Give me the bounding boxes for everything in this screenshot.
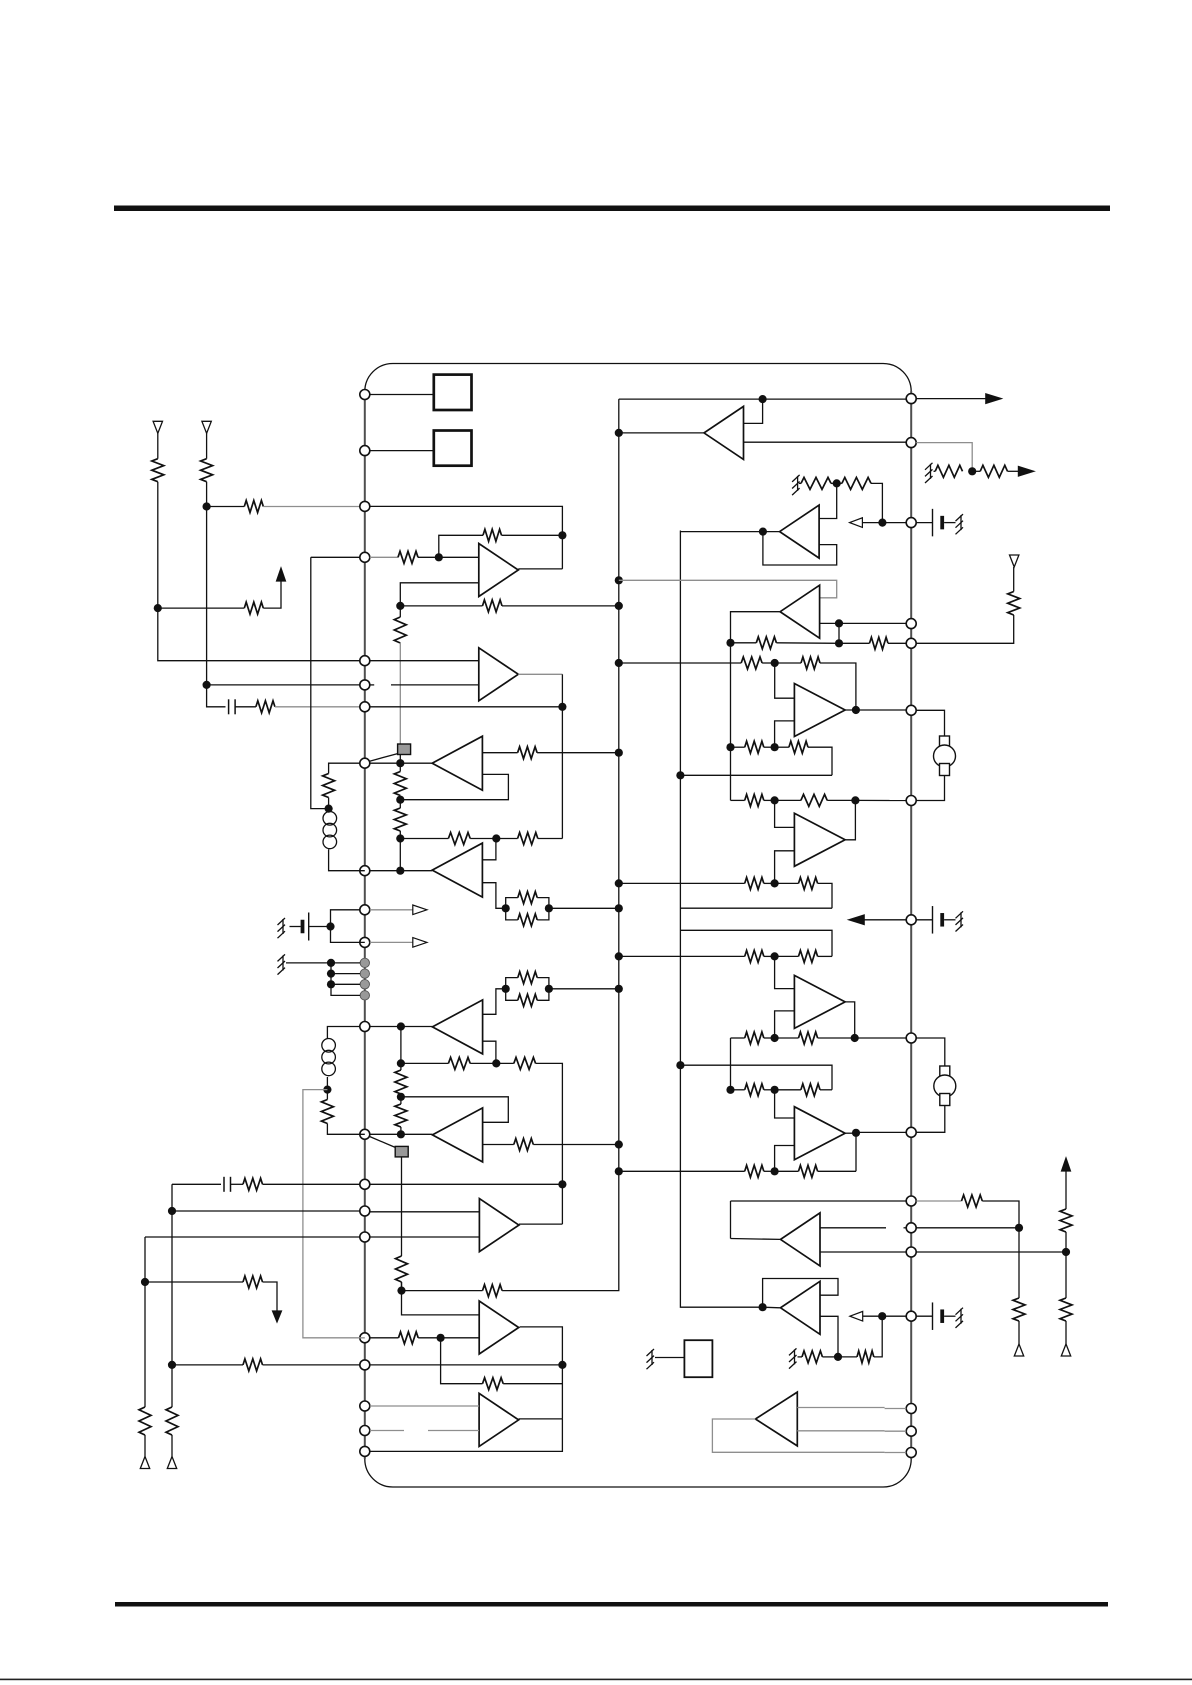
wire pin4 to R7 [370, 556, 398, 558]
resistor R34 [483, 1378, 504, 1390]
wire pin18 row inside [370, 1364, 563, 1366]
resistor R40 [870, 637, 889, 649]
wire node AE lead [775, 882, 799, 884]
wire rail 1065 [680, 1065, 832, 1090]
resistor R54 [801, 1084, 820, 1096]
wire A1 fb res lead [502, 534, 563, 536]
wire node J down [400, 1027, 402, 1064]
wire GND4 lead [799, 482, 801, 484]
capacitor C4 [940, 516, 944, 530]
wire R42 corner [820, 663, 856, 710]
junction bus N1 row606 [615, 602, 623, 610]
resistor R32 [139, 1407, 151, 1435]
wire pin20 dash1 [370, 1430, 404, 1432]
wire U10 +in gray [797, 1407, 884, 1409]
wire C2 gnd lead [290, 926, 301, 928]
wire ext row 557 [311, 556, 365, 558]
wire row 1211 [172, 1210, 360, 1212]
wire R53 to node AH [764, 1089, 775, 1091]
wire A1 -in [400, 583, 479, 606]
pin 36 [906, 796, 916, 806]
wire node Q down to A8 out [561, 1184, 563, 1224]
wire R43 to node AC [764, 746, 775, 748]
wire node AH lead [775, 1089, 801, 1091]
wire node AM up [1065, 1232, 1067, 1252]
wire T2 lead [206, 433, 208, 458]
resonator Y1 [934, 736, 956, 776]
wire R34 to x562 [503, 1383, 562, 1385]
wire A9 out [520, 1327, 563, 1419]
wire pad stub2 [331, 973, 360, 975]
junction node B [203, 502, 211, 510]
resistor R49 [745, 950, 764, 962]
resistor R6 [483, 529, 502, 541]
pin 12 [360, 1022, 370, 1032]
wire A8 out [519, 1223, 563, 1225]
junction node F [396, 834, 404, 842]
junction node P [397, 1287, 405, 1295]
pin 39 [906, 619, 916, 629]
junction bus N1 row1171 [615, 1167, 623, 1175]
wire row839 lead1 [400, 838, 448, 840]
resistor R30 [243, 1359, 263, 1371]
wire node AG lead [775, 1037, 799, 1039]
junction node AD [771, 796, 779, 804]
resistor R44 [789, 741, 808, 753]
wire rail 1201 [731, 1200, 907, 1202]
wire R7 to A1 +in [418, 556, 479, 558]
wire row1063 lead1 [401, 1062, 449, 1064]
junction node AE [771, 879, 779, 887]
wire pin30 ext [916, 1251, 1066, 1253]
IC U100 outline [365, 364, 911, 1488]
wire pin1 to block X1 [370, 394, 434, 396]
wire U3 out [680, 531, 779, 533]
wire row643 lead1 [731, 642, 757, 644]
pin 38 [906, 638, 916, 648]
resistor R47 [745, 877, 764, 889]
junction bus N1 row580 [615, 576, 623, 584]
wire pin42 ext [916, 398, 986, 400]
resistor R60 [1013, 1298, 1025, 1321]
pin 42 [906, 394, 916, 404]
terminal T2 triangle [202, 421, 211, 433]
resistor R9 [394, 617, 406, 643]
wire rail 908 [680, 907, 832, 909]
wire node M to R23 [400, 1097, 402, 1104]
wire arrow IN2 to pin35 [863, 919, 907, 921]
wire U8 out [731, 1238, 780, 1241]
wire R55 to node AI [764, 1170, 775, 1172]
ground GND5 [956, 514, 964, 534]
page bottom hairline [0, 1679, 1192, 1681]
wire R32 to T4 [144, 1435, 146, 1457]
wire node A to R5 [158, 607, 245, 609]
wire pin3 row to corner [370, 506, 563, 569]
junction A1 +in [435, 553, 443, 561]
junction bus N1 row663 [615, 659, 623, 667]
resistor R56 [799, 1165, 818, 1177]
wire R59 corner down [982, 1201, 1019, 1228]
wire pin7 row [370, 706, 563, 708]
wire arrow IN3 lead [863, 1315, 883, 1317]
wire A1 out [518, 568, 562, 570]
block X3 [684, 1340, 712, 1377]
resistor R22 [395, 1070, 407, 1094]
wire pin8 to A3 out [370, 762, 432, 764]
wire GND9 to box [655, 1357, 684, 1359]
wire RT1 to bus N1 [549, 907, 619, 909]
pin 35 [906, 915, 916, 925]
wire GND7 lead [798, 1356, 803, 1358]
resistor R7 [398, 551, 418, 563]
wire pin14 ext [172, 1183, 221, 1185]
resistor R19 [518, 994, 537, 1006]
IC left pin bus [364, 391, 366, 1459]
block X1 (filter) [434, 375, 472, 410]
capacitor C6 [940, 1309, 944, 1323]
wire bus row957 right [619, 955, 745, 957]
resistor R57 [802, 1351, 822, 1363]
wire node AA lead [839, 642, 870, 644]
wire A4 out row [400, 870, 432, 872]
resistor R59 [962, 1195, 983, 1207]
terminal T5 [1014, 1344, 1023, 1356]
wire S1 to pin8 row [399, 755, 401, 764]
resistor R8 [483, 600, 503, 612]
junction node X [833, 479, 841, 487]
resistor R58 [857, 1351, 874, 1363]
junction node K [397, 1059, 405, 1067]
junction pin8 node [396, 759, 404, 767]
op-amp U3 [780, 505, 820, 558]
pin 10 [360, 905, 370, 915]
wire pin40 cap lead [916, 522, 932, 524]
wire pin12 ext corner [327, 1027, 360, 1039]
pin 4 [360, 552, 370, 562]
switch S1 contact (gray square) [398, 744, 411, 755]
junction node A [154, 604, 162, 612]
wire pin10 ext [331, 910, 361, 927]
resistor R16 [518, 892, 537, 904]
wire row883 res lead [744, 882, 746, 884]
wire T1 lead [157, 433, 159, 458]
wire row 606 left lead [400, 605, 482, 607]
wire A4 +in hook [482, 839, 496, 860]
wire node U down [441, 1338, 483, 1384]
resistor R33 [399, 1332, 419, 1344]
wire A5 out row [401, 1026, 433, 1028]
ground GND2 [278, 954, 286, 974]
terminal T1 triangle [153, 421, 162, 433]
wire row 1237 [145, 1236, 360, 1238]
pad P2 (gray) [360, 969, 369, 978]
wire row 1282 lead [145, 1281, 243, 1283]
junction RT1 left [502, 904, 510, 912]
junction bus N1 row908 [615, 904, 623, 912]
op-amp U9 [781, 1281, 821, 1334]
junction U6 out node [851, 1034, 859, 1042]
junction RT2 left [502, 985, 510, 993]
terminal T6 [1061, 1344, 1070, 1356]
wire node X lead [831, 482, 842, 484]
junction node D [396, 602, 404, 610]
pin 28 [906, 1404, 916, 1414]
junction node Z [835, 619, 843, 627]
arrow OUT4 [1018, 467, 1034, 477]
pin 29 [906, 1311, 916, 1321]
resistor R2 [201, 459, 213, 482]
wire R15 corner up [538, 838, 563, 840]
junction node AG [771, 1034, 779, 1042]
wire node D to R9 [399, 606, 401, 617]
wire node AK to pin29 [882, 1315, 906, 1317]
resistor R1 [152, 459, 164, 482]
junction node W [968, 467, 976, 475]
wire A5 +in hook [483, 989, 506, 1015]
wire R61 up [1065, 1171, 1067, 1209]
junction node U [437, 1334, 445, 1342]
wire node Z to pin39 [839, 622, 906, 624]
junction node R [168, 1207, 176, 1215]
wire x856 down [855, 1133, 857, 1172]
resistor R48 [799, 877, 818, 889]
wire node B down [206, 507, 208, 685]
wire node AB lead [775, 662, 801, 664]
wire R28 to pin14 [263, 1183, 361, 1185]
wire R47 to node AE [764, 882, 775, 884]
junction RT1 right [545, 904, 553, 912]
junction node AJ [834, 1353, 842, 1361]
resonator Y2 [934, 1066, 956, 1106]
wire A2 out stub [518, 673, 562, 675]
wire U7 -hook [775, 1146, 795, 1172]
pin 14 [360, 1179, 370, 1189]
wire U1 out [619, 432, 704, 434]
wire R33 to node U [418, 1337, 440, 1339]
junction node G [396, 867, 404, 875]
junction coil L1 top [325, 805, 333, 813]
wire pin38 ext [916, 615, 1014, 643]
wire pin29 cap lead [916, 1315, 932, 1317]
ground GND8 [956, 1308, 964, 1328]
parallel resistors RT1 frame [506, 898, 518, 909]
junction node J [397, 1022, 405, 1030]
arrow down AGC2 [273, 1311, 282, 1322]
junction A1 fb node [558, 531, 566, 539]
junction pad node2 [327, 970, 335, 978]
wire pin8 node to R11 [399, 763, 401, 771]
wire pin5 to A2 +in [370, 660, 479, 662]
wire row1171 lead1 [619, 1170, 745, 1172]
arrow OUT3 [986, 394, 1002, 404]
wire pin6 to A2 -in [391, 684, 479, 686]
resistor R51 [745, 1032, 764, 1044]
wire R25 to bus N1 [533, 1144, 619, 1146]
wire pin27 stub [885, 1430, 907, 1432]
wire Y1 to pin36 [916, 776, 944, 801]
op-amp A3 [432, 736, 482, 790]
switch S2 contact (gray square) [395, 1146, 408, 1157]
resistor R29 [243, 1276, 263, 1288]
wire U8 -in [820, 1251, 906, 1253]
resistor R23 [395, 1104, 407, 1127]
block X2 (filter) [434, 431, 472, 466]
wire node C to pin row 685 [207, 684, 365, 686]
wire R63 to T7 [1013, 567, 1015, 592]
wire R44 corner down [808, 747, 832, 775]
wire pin40 row [862, 522, 906, 524]
wire U8 +in pin stub [904, 1227, 907, 1229]
op-amp A4 [432, 843, 482, 897]
junction row1090 left [726, 1086, 734, 1094]
wire node AC lead [775, 746, 789, 748]
wire pin8 ext corner [329, 763, 360, 773]
resistor R53 [745, 1084, 764, 1096]
junction node AM [1062, 1248, 1070, 1256]
wire U10 out gray frame [712, 1419, 884, 1452]
op-amp U5 [794, 813, 845, 866]
op-amp U10 [755, 1392, 797, 1446]
wire GND3 lead [934, 470, 936, 472]
junction pad node1 [327, 959, 335, 967]
wire pin28 stub [885, 1408, 907, 1410]
junction node AK [878, 1312, 886, 1320]
wire pin32 ext [916, 1200, 961, 1202]
pad P3 (gray) [360, 980, 369, 989]
wire U4 out to pin37 [845, 709, 906, 711]
wire A6 out row [401, 1133, 433, 1135]
pin 20 [360, 1426, 370, 1436]
resistor R50 [799, 950, 818, 962]
wire node X down hook [819, 483, 837, 518]
wire node C down to cap row [207, 685, 226, 707]
wire row1090 lead1 [731, 1089, 745, 1091]
wire U6 +hook [775, 956, 795, 988]
wire A6 +in bracket [401, 1097, 508, 1123]
pin 17 [360, 1333, 370, 1343]
wire pin12 row [370, 1026, 401, 1028]
pin 40 [906, 518, 916, 528]
pin 1 [360, 390, 370, 400]
ground GND3 [925, 463, 933, 483]
wire R14 to node H [470, 838, 496, 840]
wire R9 to switch S1 [399, 643, 401, 744]
resistor R26 [396, 1256, 408, 1282]
capacitor C2 [301, 920, 305, 934]
wire U5 +hook [775, 800, 795, 827]
wire R51 to node AG [764, 1037, 775, 1039]
wire node U to A9 -in [441, 1337, 480, 1339]
junction bus N2 row775 [676, 771, 684, 779]
wire node AF lead [775, 955, 799, 957]
pin 5 [360, 656, 370, 666]
wire node E to R12 [399, 800, 401, 808]
op-amp A10 [479, 1393, 518, 1446]
junction U3 out node [759, 528, 767, 536]
arrow IN1 (open) [850, 518, 863, 528]
resistor R43 [745, 741, 764, 753]
wire pin10 arrow lead [370, 909, 413, 911]
wire R10 to bus N1 [537, 752, 619, 754]
resistor R5 [244, 602, 263, 614]
wire R30 to pin18 [263, 1364, 361, 1366]
resistor R39 [756, 637, 776, 649]
pin 16 [360, 1232, 370, 1242]
pin 32 [906, 1196, 916, 1206]
wire R46 to U5 out node [827, 799, 855, 801]
wire C5 gnd lead [944, 919, 955, 921]
wire rail 775 [680, 774, 832, 776]
junction node I [492, 1059, 500, 1067]
wire pin41 ext [916, 443, 972, 472]
wire S2 down [401, 1157, 403, 1256]
wire row1290 lead [402, 1290, 483, 1292]
wire pin14 row inside [370, 1183, 563, 1185]
resistor R10 [518, 747, 538, 759]
resistor R41 [741, 657, 762, 669]
junction bus N1 row989 [615, 985, 623, 993]
wire U5 -hook [775, 851, 795, 884]
wire row1038 corner [731, 1037, 745, 1039]
wire L2 node to pin17 (gray) [303, 1090, 365, 1338]
capacitor C5 [940, 913, 944, 927]
junction node AB [771, 659, 779, 667]
op-amp U7 [794, 1107, 845, 1160]
wire U2 +hook (gray) [619, 580, 837, 598]
wire U9 out [763, 1306, 780, 1309]
junction node M [397, 1093, 405, 1101]
wire R58 corner up [874, 1316, 882, 1357]
wire C1 to R4 [235, 706, 256, 708]
pin 13 [360, 1129, 370, 1139]
wire node AI lead [775, 1170, 799, 1172]
wire node B resistor row [207, 506, 245, 508]
pin 37 [906, 705, 916, 715]
resistor R46 [801, 794, 827, 806]
wire U4 +hook [775, 663, 795, 698]
resistor R12 [394, 808, 406, 831]
junction node N [397, 1130, 405, 1138]
resistor R21 [514, 1057, 536, 1069]
page top rule [114, 206, 1110, 212]
junction node T [141, 1278, 149, 1286]
wire node P lead [402, 1282, 480, 1315]
resistor R18 [518, 972, 537, 984]
wire C2 node down to pin11 [331, 927, 365, 943]
terminal T7 [1010, 555, 1019, 567]
wire C2 lead [309, 926, 327, 928]
junction bus N1 row1145 [615, 1140, 623, 1148]
op-amp A9 [479, 1301, 519, 1354]
wire R45 to node AD [764, 799, 775, 801]
resistor R35 [935, 465, 962, 477]
wire node W lead [972, 470, 980, 472]
wire pin16 to A8 -in [370, 1236, 480, 1238]
wire row 1365 lead [172, 1364, 243, 1366]
wire A5 -in hook [483, 1041, 496, 1063]
inductor L2 [322, 1039, 336, 1076]
wire RT2 to bus N1 [549, 988, 619, 990]
op-amp U8 [781, 1213, 821, 1266]
junction pad node3 [327, 980, 335, 988]
wire bus row883 right [619, 882, 745, 884]
resistor R55 [745, 1165, 764, 1177]
wire R21 corner down [536, 1063, 563, 1184]
pin 7 [360, 702, 370, 712]
wire R3 to pin 506 [263, 506, 365, 508]
wire R26 to node P [401, 1282, 403, 1291]
